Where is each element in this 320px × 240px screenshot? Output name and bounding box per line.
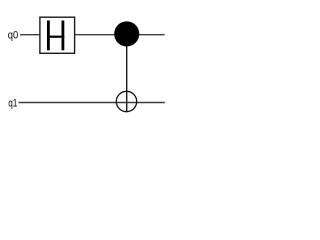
- svg-text:q1: q1: [8, 98, 17, 110]
- svg-text:q0: q0: [8, 30, 18, 42]
